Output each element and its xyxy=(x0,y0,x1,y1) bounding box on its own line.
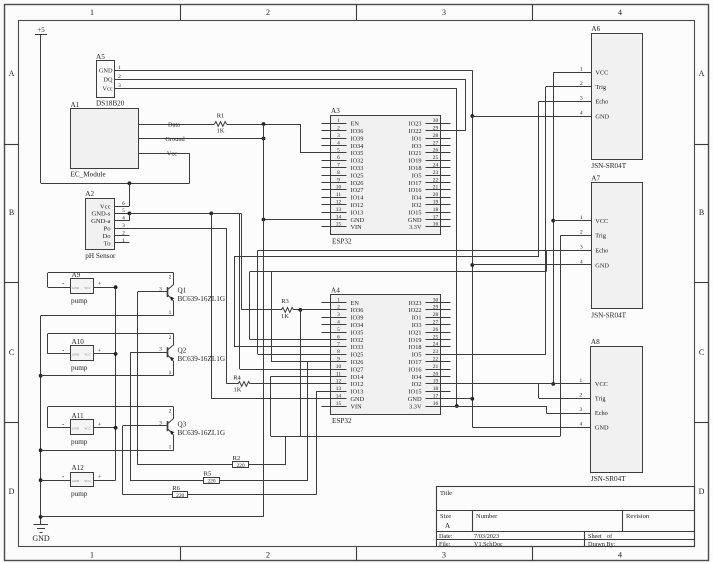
svg-text:IO1: IO1 xyxy=(412,315,422,322)
svg-text:20: 20 xyxy=(433,192,439,198)
svg-text:IO3: IO3 xyxy=(412,143,422,150)
svg-text:1K: 1K xyxy=(217,128,225,135)
svg-text:To: To xyxy=(104,240,112,247)
svg-text:IO21: IO21 xyxy=(409,329,422,336)
svg-text:16: 16 xyxy=(433,222,439,228)
svg-text:C: C xyxy=(9,348,14,357)
svg-text:VCC: VCC xyxy=(84,286,91,290)
svg-text:29: 29 xyxy=(433,126,439,132)
svg-text:2: 2 xyxy=(580,230,583,236)
svg-text:4: 4 xyxy=(618,551,622,560)
svg-text:IO22: IO22 xyxy=(409,307,422,314)
svg-text:R4: R4 xyxy=(233,375,241,382)
svg-text:22: 22 xyxy=(433,177,439,183)
svg-text:VIN: VIN xyxy=(351,403,363,410)
svg-text:4: 4 xyxy=(618,8,622,17)
svg-text:IO25: IO25 xyxy=(351,172,364,179)
svg-text:IO13: IO13 xyxy=(351,209,364,216)
svg-text:IO15: IO15 xyxy=(409,209,422,216)
svg-text:VCC: VCC xyxy=(595,381,608,388)
svg-text:12: 12 xyxy=(336,379,342,385)
svg-text:2: 2 xyxy=(169,335,172,341)
svg-text:+: + xyxy=(98,282,102,288)
svg-text:VCC: VCC xyxy=(84,353,91,357)
svg-text:R1: R1 xyxy=(217,112,225,119)
svg-text:pump: pump xyxy=(71,297,88,305)
svg-text:11: 11 xyxy=(336,192,341,198)
svg-text:A6: A6 xyxy=(591,25,600,33)
svg-text:18: 18 xyxy=(433,207,439,213)
svg-text:pump: pump xyxy=(71,364,88,372)
svg-text:IO18: IO18 xyxy=(409,165,422,172)
svg-text:IO12: IO12 xyxy=(351,202,364,209)
svg-text:GND: GND xyxy=(595,113,609,120)
svg-text:GND: GND xyxy=(408,217,422,224)
svg-text:pump: pump xyxy=(71,438,88,446)
svg-text:24: 24 xyxy=(433,342,439,348)
svg-text:20: 20 xyxy=(433,371,439,377)
svg-text:17: 17 xyxy=(433,394,439,400)
svg-text:IO27: IO27 xyxy=(351,366,364,373)
svg-text:D: D xyxy=(699,487,705,496)
svg-text:220: 220 xyxy=(176,493,184,499)
svg-text:R3: R3 xyxy=(281,298,289,305)
svg-text:1: 1 xyxy=(169,370,172,376)
svg-text:DS18B20: DS18B20 xyxy=(96,100,125,108)
svg-text:26: 26 xyxy=(433,148,439,154)
svg-text:19: 19 xyxy=(433,379,439,385)
svg-text:29: 29 xyxy=(433,305,439,311)
svg-text:IO22: IO22 xyxy=(409,128,422,135)
svg-text:Echo: Echo xyxy=(595,99,608,106)
svg-text:A: A xyxy=(699,69,705,78)
svg-text:2: 2 xyxy=(266,8,270,17)
svg-text:1K: 1K xyxy=(234,387,242,394)
svg-text:4: 4 xyxy=(122,216,125,222)
svg-text:8: 8 xyxy=(337,349,340,355)
svg-text:4: 4 xyxy=(580,110,583,116)
svg-text:3: 3 xyxy=(580,96,583,102)
svg-text:IO4: IO4 xyxy=(412,195,423,202)
svg-text:GND: GND xyxy=(72,286,80,290)
svg-text:DQ: DQ xyxy=(103,77,113,84)
svg-text:220: 220 xyxy=(207,478,215,484)
svg-text:GND-s: GND-s xyxy=(91,211,110,218)
svg-text:220: 220 xyxy=(237,463,245,469)
svg-text:3: 3 xyxy=(337,312,340,318)
svg-text:21: 21 xyxy=(433,364,439,370)
svg-text:11: 11 xyxy=(336,371,341,377)
svg-text:IO39: IO39 xyxy=(351,315,364,322)
svg-text:A11: A11 xyxy=(72,412,85,420)
svg-text:IO35: IO35 xyxy=(351,329,364,336)
svg-text:A7: A7 xyxy=(591,175,600,183)
svg-text:Sheet: Sheet xyxy=(588,533,602,540)
svg-text:3: 3 xyxy=(337,133,340,139)
svg-text:GND: GND xyxy=(72,479,80,483)
svg-text:Vcc: Vcc xyxy=(100,203,111,210)
svg-text:IO14: IO14 xyxy=(351,374,365,381)
svg-text:Trig: Trig xyxy=(595,233,606,240)
svg-text:16: 16 xyxy=(433,401,439,407)
svg-text:A5: A5 xyxy=(96,53,105,61)
svg-text:IO19: IO19 xyxy=(409,158,422,165)
svg-text:Vcc: Vcc xyxy=(102,86,112,93)
svg-text:Q2: Q2 xyxy=(178,347,187,355)
svg-text:27: 27 xyxy=(433,320,439,326)
svg-text:28: 28 xyxy=(433,312,439,318)
svg-text:6: 6 xyxy=(122,201,125,207)
svg-text:GND: GND xyxy=(351,217,365,224)
svg-text:1: 1 xyxy=(122,238,125,244)
svg-text:GND: GND xyxy=(595,262,609,269)
svg-text:19: 19 xyxy=(433,200,439,206)
svg-text:Trig: Trig xyxy=(595,396,606,403)
svg-text:1: 1 xyxy=(90,551,94,560)
svg-text:Echo: Echo xyxy=(595,248,608,255)
svg-text:Q1: Q1 xyxy=(178,286,187,294)
svg-text:IO33: IO33 xyxy=(351,344,364,351)
svg-text:IO16: IO16 xyxy=(409,187,422,194)
svg-text:IO34: IO34 xyxy=(351,143,365,150)
svg-text:A1: A1 xyxy=(71,101,80,109)
svg-text:IO36: IO36 xyxy=(351,128,364,135)
svg-text:IO26: IO26 xyxy=(351,359,364,366)
svg-text:2: 2 xyxy=(337,305,340,311)
svg-text:1K: 1K xyxy=(281,313,289,320)
svg-text:IO18: IO18 xyxy=(409,344,422,351)
svg-text:GND: GND xyxy=(595,425,609,432)
svg-text:A4: A4 xyxy=(331,287,340,295)
svg-text:VCC: VCC xyxy=(595,70,608,77)
svg-text:IO13: IO13 xyxy=(351,389,364,396)
svg-text:GND: GND xyxy=(72,353,80,357)
svg-text:3: 3 xyxy=(442,8,446,17)
svg-text:IO33: IO33 xyxy=(351,165,364,172)
svg-text:IO19: IO19 xyxy=(409,337,422,344)
svg-text:25: 25 xyxy=(433,155,439,161)
svg-text:Vcc: Vcc xyxy=(167,150,177,157)
svg-text:GND: GND xyxy=(99,68,113,75)
svg-text:Do: Do xyxy=(102,233,111,240)
svg-text:3: 3 xyxy=(159,286,162,292)
svg-text:IO32: IO32 xyxy=(351,158,364,165)
svg-text:IO2: IO2 xyxy=(412,381,422,388)
svg-text:IO4: IO4 xyxy=(412,374,423,381)
svg-text:Echo: Echo xyxy=(595,410,608,417)
svg-text:IO26: IO26 xyxy=(351,180,364,187)
svg-text:Date:: Date: xyxy=(439,533,453,540)
svg-text:25: 25 xyxy=(433,334,439,340)
svg-text:Po: Po xyxy=(104,226,112,233)
svg-text:ESP32: ESP32 xyxy=(332,238,352,246)
svg-text:15: 15 xyxy=(336,222,342,228)
svg-text:B: B xyxy=(699,208,704,217)
svg-text:VIN: VIN xyxy=(351,224,363,231)
svg-text:3: 3 xyxy=(442,551,446,560)
svg-text:3: 3 xyxy=(122,223,125,229)
svg-text:R2: R2 xyxy=(233,455,241,462)
svg-text:EN: EN xyxy=(351,300,360,307)
svg-text:GND: GND xyxy=(72,427,80,431)
svg-text:Number: Number xyxy=(476,513,498,520)
svg-text:6: 6 xyxy=(337,334,340,340)
svg-text:30: 30 xyxy=(433,297,439,303)
svg-text:Data: Data xyxy=(168,121,180,128)
svg-text:BC639-16ZL1G: BC639-16ZL1G xyxy=(178,355,226,363)
svg-text:17: 17 xyxy=(433,214,439,220)
svg-text:C: C xyxy=(699,348,704,357)
svg-text:IO16: IO16 xyxy=(409,366,422,373)
svg-text:3.3V: 3.3V xyxy=(409,224,422,231)
svg-text:6: 6 xyxy=(337,155,340,161)
svg-text:18: 18 xyxy=(433,386,439,392)
svg-text:IO17: IO17 xyxy=(409,359,422,366)
svg-text:2: 2 xyxy=(169,408,172,414)
svg-text:5: 5 xyxy=(337,148,340,154)
svg-text:IO15: IO15 xyxy=(409,389,422,396)
svg-text:1: 1 xyxy=(169,310,172,316)
svg-text:+5: +5 xyxy=(37,26,45,34)
svg-text:10: 10 xyxy=(336,185,342,191)
svg-text:2: 2 xyxy=(266,551,270,560)
svg-text:IO32: IO32 xyxy=(351,337,364,344)
svg-text:9: 9 xyxy=(337,177,340,183)
svg-text:8: 8 xyxy=(337,170,340,176)
svg-text:IO35: IO35 xyxy=(351,150,364,157)
svg-text:3.3V: 3.3V xyxy=(409,403,422,410)
svg-text:Title: Title xyxy=(440,490,452,497)
svg-text:IO21: IO21 xyxy=(409,150,422,157)
svg-text:4: 4 xyxy=(337,140,340,146)
svg-text:Ground: Ground xyxy=(165,136,185,143)
svg-text:R6: R6 xyxy=(172,485,180,492)
svg-text:2: 2 xyxy=(337,126,340,132)
svg-text:VCC: VCC xyxy=(84,427,91,431)
svg-text:2: 2 xyxy=(169,274,172,280)
svg-text:IO39: IO39 xyxy=(351,135,364,142)
svg-text:13: 13 xyxy=(336,207,342,213)
svg-text:1: 1 xyxy=(337,297,340,303)
svg-text:GND: GND xyxy=(408,396,422,403)
svg-text:IO36: IO36 xyxy=(351,307,364,314)
svg-text:Drawn By:: Drawn By: xyxy=(588,541,616,548)
svg-text:9: 9 xyxy=(337,357,340,363)
svg-text:ESP32: ESP32 xyxy=(332,417,352,425)
svg-text:EC_Module: EC_Module xyxy=(71,171,106,179)
svg-text:Trig: Trig xyxy=(595,84,606,91)
svg-text:IO27: IO27 xyxy=(351,187,364,194)
svg-text:3: 3 xyxy=(580,407,583,413)
svg-text:1: 1 xyxy=(337,118,340,124)
svg-text:30: 30 xyxy=(433,118,439,124)
svg-text:23: 23 xyxy=(433,349,439,355)
svg-text:10: 10 xyxy=(336,364,342,370)
svg-text:A3: A3 xyxy=(331,107,340,115)
svg-text:12: 12 xyxy=(336,200,342,206)
svg-text:7/03/2023: 7/03/2023 xyxy=(474,533,499,540)
svg-text:IO23: IO23 xyxy=(409,300,422,307)
svg-text:14: 14 xyxy=(336,394,342,400)
svg-text:EN: EN xyxy=(351,121,360,128)
svg-text:Revision: Revision xyxy=(626,513,650,520)
svg-text:VCC: VCC xyxy=(84,479,91,483)
svg-text:4: 4 xyxy=(337,320,340,326)
svg-text:GND: GND xyxy=(32,534,50,543)
svg-text:pump: pump xyxy=(71,490,88,498)
svg-text:IO12: IO12 xyxy=(351,381,364,388)
svg-text:13: 13 xyxy=(336,386,342,392)
svg-text:BC639-16ZL1G: BC639-16ZL1G xyxy=(178,295,226,303)
svg-text:GND-a: GND-a xyxy=(91,218,110,225)
svg-text:1: 1 xyxy=(90,8,94,17)
svg-text:A2: A2 xyxy=(85,190,94,198)
svg-text:22: 22 xyxy=(433,357,439,363)
svg-text:IO34: IO34 xyxy=(351,322,365,329)
svg-text:4: 4 xyxy=(580,422,583,428)
svg-text:A8: A8 xyxy=(591,338,600,346)
svg-text:D: D xyxy=(9,487,15,496)
svg-text:5: 5 xyxy=(337,327,340,333)
svg-text:5: 5 xyxy=(122,208,125,214)
svg-text:A: A xyxy=(445,522,450,530)
svg-text:3: 3 xyxy=(159,420,162,426)
svg-text:2: 2 xyxy=(580,393,583,399)
svg-text:R5: R5 xyxy=(204,470,212,477)
svg-text:IO14: IO14 xyxy=(351,195,365,202)
svg-text:GND: GND xyxy=(351,396,365,403)
svg-text:3: 3 xyxy=(580,245,583,251)
svg-text:A: A xyxy=(9,69,15,78)
svg-text:7: 7 xyxy=(337,163,340,169)
svg-text:15: 15 xyxy=(336,401,342,407)
svg-text:IO25: IO25 xyxy=(351,352,364,359)
svg-text:IO5: IO5 xyxy=(412,352,422,359)
svg-text:IO17: IO17 xyxy=(409,180,422,187)
svg-text:IO2: IO2 xyxy=(412,202,422,209)
svg-text:VCC: VCC xyxy=(595,218,608,225)
svg-text:IO1: IO1 xyxy=(412,135,422,142)
svg-text:Q3: Q3 xyxy=(178,420,187,428)
svg-text:BC639-16ZL1G: BC639-16ZL1G xyxy=(178,429,226,437)
svg-text:26: 26 xyxy=(433,327,439,333)
svg-text:+: + xyxy=(98,475,102,481)
svg-text:JSN-SR04T: JSN-SR04T xyxy=(591,162,626,170)
svg-text:IO3: IO3 xyxy=(412,322,422,329)
svg-text:24: 24 xyxy=(433,163,439,169)
svg-text:V1.SchDoc: V1.SchDoc xyxy=(474,541,503,548)
svg-text:JSN-SR04T: JSN-SR04T xyxy=(591,475,626,483)
svg-text:pH Sensor: pH Sensor xyxy=(85,252,116,260)
svg-text:28: 28 xyxy=(433,133,439,139)
svg-text:IO5: IO5 xyxy=(412,172,422,179)
svg-text:1: 1 xyxy=(169,444,172,450)
svg-text:14: 14 xyxy=(336,214,342,220)
svg-text:3: 3 xyxy=(159,347,162,353)
svg-text:2: 2 xyxy=(122,230,125,236)
svg-text:23: 23 xyxy=(433,170,439,176)
svg-text:Size: Size xyxy=(440,513,451,520)
svg-text:B: B xyxy=(9,208,14,217)
svg-text:JSN-SR04T: JSN-SR04T xyxy=(591,312,626,320)
svg-text:A12: A12 xyxy=(72,464,85,472)
svg-text:27: 27 xyxy=(433,140,439,146)
svg-text:7: 7 xyxy=(337,342,340,348)
svg-text:21: 21 xyxy=(433,185,439,191)
svg-text:A10: A10 xyxy=(72,338,85,346)
svg-text:IO23: IO23 xyxy=(409,121,422,128)
svg-text:1: 1 xyxy=(580,67,583,73)
svg-text:File:: File: xyxy=(439,541,451,548)
